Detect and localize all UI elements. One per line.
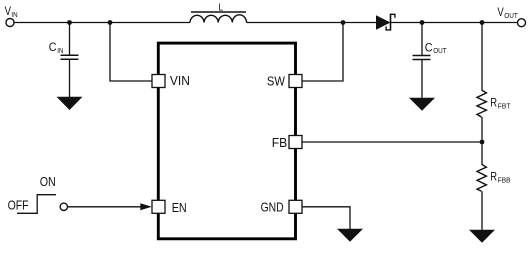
svg-text:C: C [49,40,57,54]
resistor RFBB [477,164,486,191]
svg-text:R: R [490,170,497,184]
pin FB [289,136,302,149]
resistor RFBT [477,90,486,117]
arrow into EN [140,203,152,210]
svg-text:FBB: FBB [498,178,511,185]
svg-text:IN: IN [57,48,63,55]
wire divider to RFBB [481,142,483,164]
svg-text:L: L [218,3,223,14]
diode D1 [376,14,395,31]
ground CIN [57,97,83,110]
svg-text:V: V [497,5,503,19]
pin SW [289,75,302,88]
svg-text:GND: GND [261,200,284,214]
svg-text:VIN: VIN [170,74,190,88]
svg-text:V: V [5,4,11,18]
svg-text:FBT: FBT [498,103,511,110]
svg-text:IN: IN [11,12,17,19]
terminal VIN [6,19,14,27]
op-amp U1 IC body [158,43,295,239]
node VIN pin tap [108,20,113,25]
svg-text:FB: FB [272,136,288,150]
svg-text:SW: SW [267,75,285,89]
wire RFBT to FB node [481,117,483,142]
wire CIN to ground [69,59,71,97]
pin EN [152,200,165,213]
wire EN drive [68,206,143,208]
svg-text:ON: ON [40,175,56,189]
pin VIN [152,75,165,88]
ground COUT [409,98,435,111]
svg-text:R: R [490,96,497,110]
wire COUT down [421,23,423,56]
wire to VIN pin [110,23,152,82]
wire RFBB to ground [481,191,483,230]
node SW tap [341,20,346,25]
svg-text:EN: EN [172,201,187,215]
node COUT tap [420,20,425,25]
wire SW pin to rail [303,23,344,82]
capacitor COUT [413,56,431,60]
ground GND pin [337,229,363,242]
svg-text:C: C [425,40,433,54]
wire GND pin to ground [303,207,351,229]
svg-text:OFF: OFF [8,199,29,213]
wire CIN down [69,23,71,56]
switch waveform [17,195,56,214]
terminal EN drive [60,203,67,210]
inductor L [190,12,247,23]
node RFBT tap [480,20,485,25]
wire inductor to diode [247,22,377,24]
node FB divider [480,140,485,145]
wire diode to VOUT [391,22,518,24]
ground RFBB [469,230,495,243]
pin GND [289,200,302,213]
node CIN tap [67,20,72,25]
wire RFBT top [481,23,483,91]
wire top rail left [14,22,190,24]
wire FB pin to divider [303,141,483,143]
svg-text:OUT: OUT [433,48,447,55]
wire COUT to ground [421,60,423,98]
capacitor CIN [61,55,79,59]
svg-text:OUT: OUT [504,13,518,20]
terminal VOUT [518,19,526,27]
